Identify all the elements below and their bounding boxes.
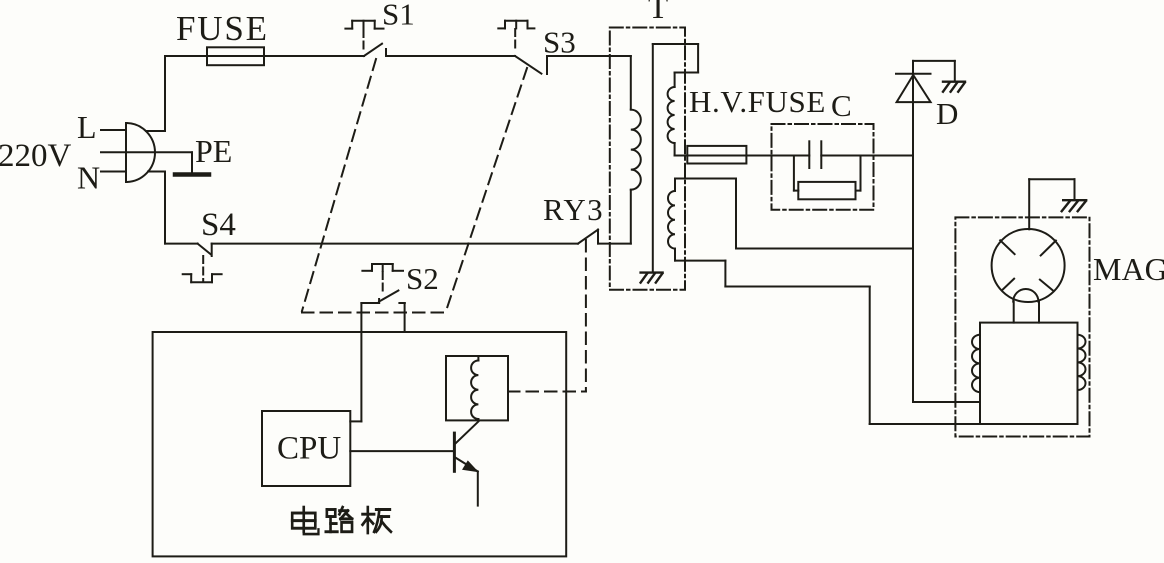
- svg-text:S2: S2: [406, 261, 439, 296]
- svg-text:T: T: [648, 0, 668, 26]
- svg-text:CPU: CPU: [277, 431, 341, 467]
- svg-text:PE: PE: [195, 133, 232, 169]
- svg-text:S4: S4: [201, 207, 236, 243]
- svg-text:L: L: [77, 109, 97, 145]
- svg-text:S3: S3: [543, 25, 576, 60]
- svg-text:S1: S1: [382, 0, 415, 32]
- svg-text:N: N: [77, 160, 100, 196]
- svg-text:H.V.FUSE: H.V.FUSE: [689, 84, 826, 119]
- svg-text:C: C: [831, 88, 852, 123]
- svg-text:220V: 220V: [0, 138, 72, 174]
- svg-text:MAG: MAG: [1093, 251, 1164, 287]
- svg-text:D: D: [936, 96, 958, 131]
- svg-text:FUSE: FUSE: [176, 9, 269, 48]
- svg-text:RY3: RY3: [543, 192, 604, 227]
